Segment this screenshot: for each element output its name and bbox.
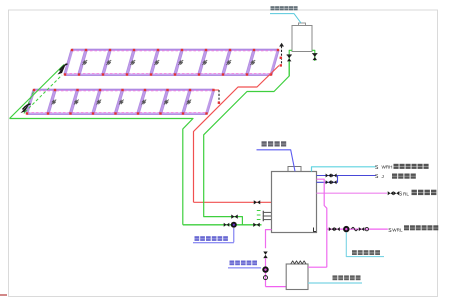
valve on red pipe (254, 200, 261, 204)
red junction dots (33, 89, 35, 91)
label 储热水箱 leader (257, 150, 296, 172)
collector row right end edge (207, 90, 214, 114)
svg-text:J: J (382, 174, 384, 179)
solar pump P1 (231, 222, 237, 228)
collector row outline top edge (72, 49, 278, 51)
green coil ticks (257, 210, 261, 212)
magenta hot water RL line (317, 192, 388, 194)
green dashed return along rows (25, 75, 62, 112)
label 热泵循环泵 (230, 261, 235, 266)
label 系统循环泵 (352, 250, 357, 255)
storage tank cap (288, 167, 301, 172)
expansion left drop valve (289, 50, 292, 76)
row2 right vent link (214, 89, 220, 91)
collector panel divider (103, 50, 110, 75)
flow arrow row1 left (58, 63, 67, 75)
label 储热水箱 (262, 141, 267, 146)
collector panel divider (199, 50, 206, 75)
collector panel divider (48, 90, 55, 114)
panel hatch glyphs (51, 100, 56, 105)
heating pump (343, 226, 349, 232)
unit top coil zigzag (291, 261, 306, 264)
heat pump circulation pump (262, 266, 268, 272)
tank coil (heat exchanger comb) (263, 211, 271, 213)
collector panel divider (93, 90, 100, 114)
label 高位膨胀水箱 (271, 6, 275, 10)
collector row outline top edge (34, 89, 214, 91)
collector panel divider (138, 90, 145, 114)
collector panel divider (71, 90, 78, 114)
label 高位膨胀水箱 leader (270, 14, 301, 23)
collector row left end edge (27, 90, 34, 114)
label 太阳能循环泵 (195, 236, 200, 241)
valve before coil (253, 223, 260, 227)
leader to solar pump label (233, 228, 235, 242)
collector panel divider (151, 50, 158, 75)
collector panel divider (183, 90, 190, 114)
collector row outline bottom edge (27, 113, 207, 115)
cyan unit pipe + label 空气源热泵 (308, 282, 362, 284)
magenta pipe tank to heat pump (266, 230, 272, 249)
cyan WRH return line (312, 167, 376, 172)
blue cold water branch B (317, 176, 338, 183)
expansion tank (292, 26, 312, 52)
expansion tank cap (299, 23, 306, 26)
collector panel divider (223, 50, 230, 75)
valve pair on solar loop (224, 223, 230, 227)
panel hatch glyphs (82, 60, 87, 65)
green pipe expansion tank to collectors return (204, 62, 290, 225)
blue cold water line A (317, 175, 376, 177)
collector panel divider (127, 50, 134, 75)
cyan leader to system pump label (346, 232, 384, 256)
valve on drop (263, 252, 267, 259)
red tick bottom-left (0, 294, 7, 296)
collector panel divider (247, 50, 254, 75)
red pipe to tank (194, 201, 272, 203)
collector panel divider (116, 90, 123, 114)
collector row outline bottom edge (65, 74, 271, 76)
tank inner bottom-right mark (314, 228, 317, 232)
air-source heat pump unit (286, 264, 308, 290)
valve on upper green line (231, 215, 238, 219)
red junction dots (71, 49, 73, 51)
svg-text:WRL: WRL (392, 228, 403, 233)
check valve (264, 276, 268, 280)
svg-text:WRH: WRH (382, 165, 393, 170)
storage tank 储热水箱 (272, 172, 317, 233)
magenta riser from tank (317, 179, 327, 267)
collector panel divider (79, 50, 86, 75)
expansion right drain valve (312, 50, 315, 61)
collector panel divider (175, 50, 182, 75)
flex connector (352, 227, 358, 230)
magenta unit outlet to riser (308, 266, 327, 268)
magenta bottom pipe into unit (266, 286, 287, 288)
collector row left end edge (65, 50, 72, 75)
flow arrow row2 left (21, 104, 30, 114)
collector row right end edge (271, 50, 278, 75)
green supply pipe bottom horizontal (10, 119, 194, 225)
green solar loop line to tank coil (183, 224, 262, 226)
collector panel divider (161, 90, 168, 114)
air vent symbol row1 right end (281, 46, 283, 64)
WRL heating supply line (327, 228, 388, 230)
svg-text:RL: RL (403, 192, 409, 197)
green supply pipe left diagonal (10, 65, 65, 119)
red collector outlet pipe (194, 66, 280, 203)
